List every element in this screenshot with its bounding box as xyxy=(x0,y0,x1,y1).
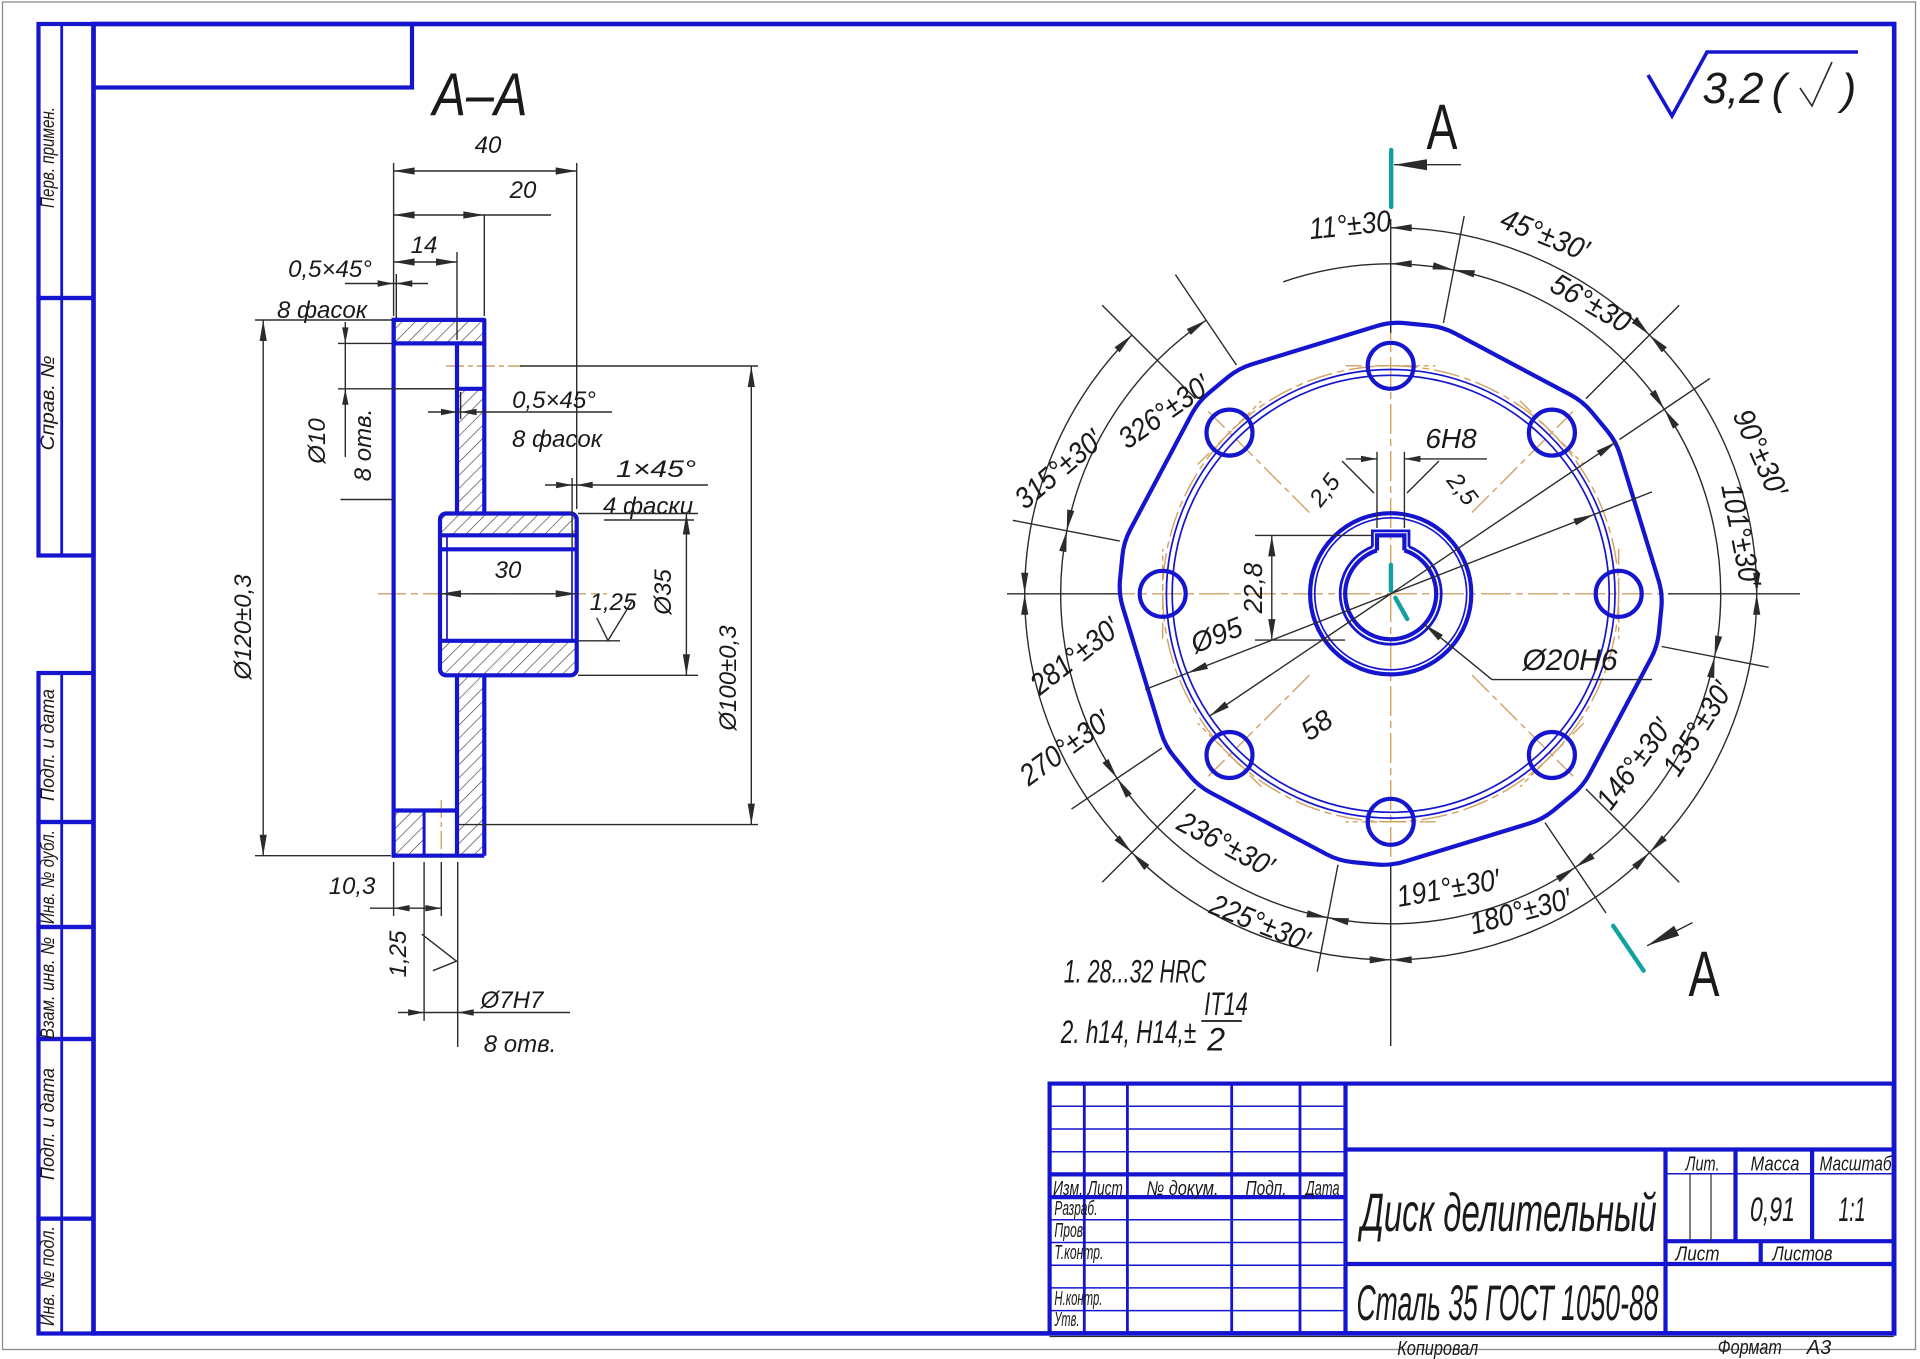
svg-text:40: 40 xyxy=(475,132,502,159)
svg-text:4 фаски: 4 фаски xyxy=(603,493,693,520)
svg-text:1:1: 1:1 xyxy=(1839,1191,1866,1229)
svg-text:14: 14 xyxy=(411,232,438,259)
svg-text:0,5×45°: 0,5×45° xyxy=(288,256,372,283)
dimension 14 xyxy=(456,252,458,340)
svg-text:Взам. инв. №: Взам. инв. № xyxy=(38,937,59,1039)
keyway slot lines (section) xyxy=(441,533,576,537)
dimension 6H8 (keyway width) xyxy=(1376,452,1378,528)
8 holes O10 xyxy=(1368,343,1414,389)
svg-text:Масса: Масса xyxy=(1751,1154,1800,1176)
surface finish mark 3,2 xyxy=(1648,52,1858,116)
svg-text:30: 30 xyxy=(495,557,522,584)
svg-text:Т.контр.: Т.контр. xyxy=(1054,1242,1103,1264)
svg-text:2: 2 xyxy=(1206,1022,1225,1058)
svg-text:8 фасок: 8 фасок xyxy=(512,426,604,453)
top-left stamp box xyxy=(94,24,413,88)
dimension 58 xyxy=(1209,442,1616,716)
angle dimension radial extension lines xyxy=(1443,216,1464,323)
dimension 30 xyxy=(440,593,577,595)
chamfer dim 0,5x45 (O10 holes) xyxy=(460,392,462,419)
svg-text:1,25: 1,25 xyxy=(590,589,637,616)
svg-text:Инв. № подл.: Инв. № подл. xyxy=(38,1226,59,1326)
keyway chamfer dim 2,5 (right) xyxy=(1407,461,1439,493)
chamfer dim 0,5x45 (left face) xyxy=(395,274,397,318)
hub chamfer circle xyxy=(1315,518,1467,670)
svg-text:А: А xyxy=(1427,91,1458,163)
dimension O100±0,3 xyxy=(520,365,758,367)
rim inner edge circles xyxy=(1172,375,1609,812)
svg-text:Ø10: Ø10 xyxy=(304,418,331,465)
svg-text:10,3: 10,3 xyxy=(329,873,376,900)
svg-text:Пров.: Пров. xyxy=(1054,1220,1086,1242)
diagonal hole centerlines xyxy=(1472,411,1573,512)
svg-text:А: А xyxy=(1689,938,1720,1010)
svg-text:8 отв.: 8 отв. xyxy=(484,1031,557,1058)
disk left face xyxy=(392,320,396,856)
svg-text:Ø100±0,3: Ø100±0,3 xyxy=(715,625,742,732)
svg-text:Копировал: Копировал xyxy=(1397,1338,1478,1359)
angle dimension arcs r330 xyxy=(1454,270,1665,409)
svg-text:Изм.: Изм. xyxy=(1053,1178,1083,1200)
front view main centerlines xyxy=(1390,310,1392,882)
web left face xyxy=(455,343,459,513)
bottom rim band xyxy=(394,808,457,812)
hole O10 centerline xyxy=(446,365,522,367)
svg-text:Подп. и дата: Подп. и дата xyxy=(38,689,59,801)
hub circle O35 xyxy=(1310,513,1471,674)
svg-text:20: 20 xyxy=(509,177,537,204)
svg-text:Формат: Формат xyxy=(1718,1337,1782,1359)
svg-text:Листов: Листов xyxy=(1771,1244,1833,1266)
bolt circle centerline O100 xyxy=(1163,366,1619,822)
left margin stamp boxes xyxy=(39,24,94,298)
keyway chamfer dim 2,5 (left) xyxy=(1342,461,1374,493)
svg-text:Сталь 35 ГОСТ 1050-88: Сталь 35 ГОСТ 1050-88 xyxy=(1357,1275,1659,1331)
bore O20H6 with keyway xyxy=(1345,550,1436,639)
section axis centerline xyxy=(378,593,607,595)
svg-text:2. h14, H14,±: 2. h14, H14,± xyxy=(1060,1014,1196,1050)
angle dimension arc 11deg xyxy=(1283,264,1465,282)
hub outline xyxy=(440,514,577,676)
svg-text:Диск делительный: Диск делительный xyxy=(1358,1183,1657,1243)
svg-text:Перв. примен.: Перв. примен. xyxy=(38,107,59,208)
section hatching xyxy=(394,320,485,344)
svg-text:1. 28...32 HRC: 1. 28...32 HRC xyxy=(1064,953,1207,989)
svg-text:22,8: 22,8 xyxy=(1238,562,1268,614)
svg-text:0,5×45°: 0,5×45° xyxy=(512,387,596,414)
title block xyxy=(1050,1084,1894,1334)
section plane mark top xyxy=(1389,150,1393,207)
svg-text:IT14: IT14 xyxy=(1204,986,1248,1022)
svg-text:Масштаб: Масштаб xyxy=(1820,1154,1893,1176)
dimension 20 xyxy=(483,215,485,316)
dimension O120±0,3 xyxy=(255,319,392,321)
web right face xyxy=(482,343,486,513)
dimension 22,8 xyxy=(1255,534,1373,536)
lobed outer profile xyxy=(1120,323,1662,865)
leader O20H6 xyxy=(1424,624,1492,679)
svg-text:3,2: 3,2 xyxy=(1702,64,1763,113)
svg-text:1×45°: 1×45° xyxy=(616,456,697,483)
recess inner edge xyxy=(394,388,457,390)
roughness 1,25 (O7 hole) xyxy=(422,934,457,971)
O10 hole bottom edge xyxy=(457,387,484,391)
svg-text:№ докум.: № докум. xyxy=(1147,1178,1219,1200)
dimension O35 xyxy=(578,513,698,515)
svg-text:Ø120±0,3: Ø120±0,3 xyxy=(230,574,257,681)
dimension 10,3 xyxy=(393,862,395,916)
dimension O95 xyxy=(1145,492,1652,690)
bore bottom line xyxy=(441,639,576,643)
section plane bend marks at center xyxy=(1389,565,1393,591)
svg-text:Утв.: Утв. xyxy=(1054,1309,1080,1331)
footer labels xyxy=(1050,1336,1894,1338)
svg-text:Подп.: Подп. xyxy=(1246,1178,1287,1200)
hole O7 centerline xyxy=(440,800,442,862)
svg-text:Лист: Лист xyxy=(1674,1244,1720,1266)
roughness 1,25 (bore) xyxy=(578,640,620,642)
O7 hole walls xyxy=(423,811,426,856)
svg-text:А3: А3 xyxy=(1806,1337,1831,1359)
svg-text:А–А: А–А xyxy=(430,61,528,128)
dimension 40 xyxy=(393,163,395,316)
svg-text:Ø35: Ø35 xyxy=(650,569,677,616)
angle dimension arcs r366 xyxy=(1391,228,1650,335)
svg-text:Н.контр.: Н.контр. xyxy=(1054,1288,1102,1310)
dimension O10 8 holes xyxy=(338,342,392,344)
svg-text:Инв. № дубл.: Инв. № дубл. xyxy=(38,830,59,924)
svg-text:Лит.: Лит. xyxy=(1684,1154,1719,1176)
dimension O7H7 8 holes xyxy=(423,862,425,1021)
svg-text:0,91: 0,91 xyxy=(1750,1191,1795,1229)
svg-text:Справ. №: Справ. № xyxy=(38,356,59,451)
svg-text:1,25: 1,25 xyxy=(385,930,412,977)
svg-text:Подп. и дата: Подп. и дата xyxy=(38,1068,59,1180)
svg-text:Ø20H6: Ø20H6 xyxy=(1521,644,1617,677)
svg-text:Разраб.: Разраб. xyxy=(1054,1198,1097,1220)
disk rim band (section) xyxy=(394,320,485,344)
svg-text:8 отв.: 8 отв. xyxy=(350,409,377,482)
svg-text:Дата: Дата xyxy=(1304,1178,1339,1200)
chamfer dim 1x45 (bore) xyxy=(571,478,573,548)
svg-text:Лист: Лист xyxy=(1086,1178,1122,1200)
section plane mark bottom xyxy=(1613,926,1643,971)
svg-text:Ø7H7: Ø7H7 xyxy=(480,987,545,1014)
hole cross ticks xyxy=(1346,365,1436,367)
svg-text:6H8: 6H8 xyxy=(1425,423,1477,454)
bore chamfer edges xyxy=(446,535,448,641)
